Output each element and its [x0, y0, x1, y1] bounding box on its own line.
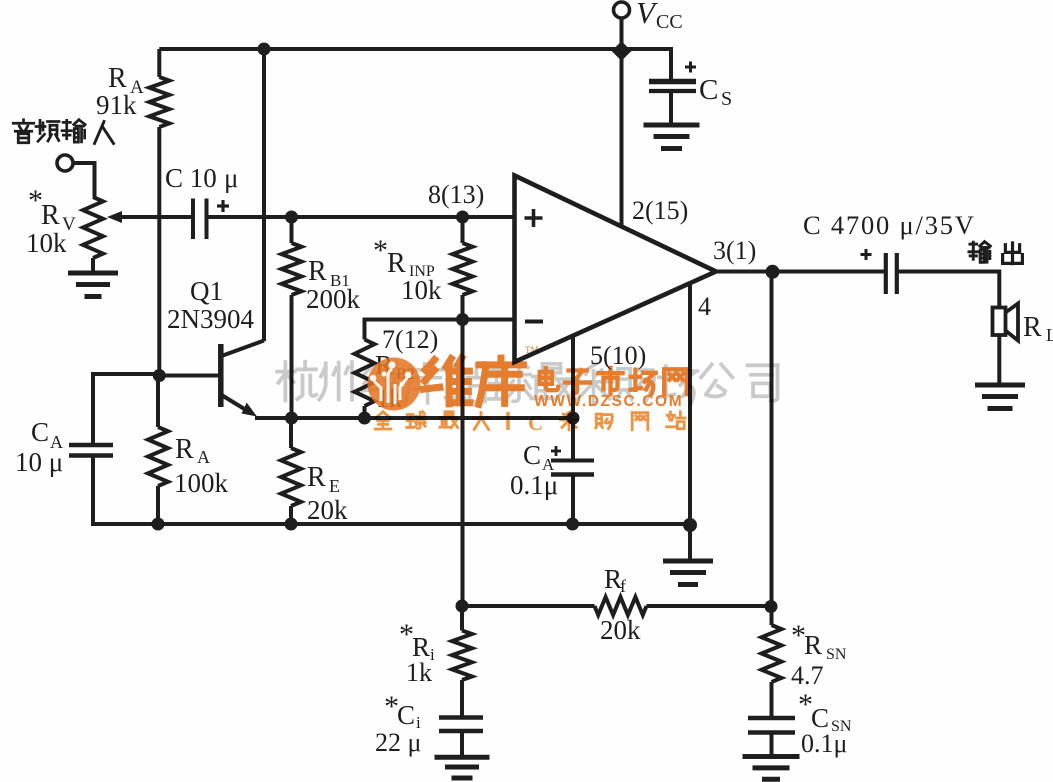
op-amp U1 triangle — [515, 176, 717, 363]
Q1 emitter lead — [222, 395, 249, 412]
capacitor CSN 0.1u — [748, 716, 795, 721]
wire feedback left — [462, 604, 595, 608]
wire emitter bus — [255, 416, 573, 420]
wire cap to speaker — [897, 270, 1000, 274]
svg-text:91k: 91k — [96, 90, 137, 120]
ground below RL — [975, 383, 1025, 388]
ground below RV — [68, 271, 118, 276]
svg-text:WWW.DZSC.COM: WWW.DZSC.COM — [534, 393, 683, 410]
svg-text:R: R — [175, 434, 194, 465]
svg-text:4.7: 4.7 — [791, 661, 824, 690]
wire minus node to feedback — [461, 320, 465, 607]
svg-text:5(10): 5(10) — [590, 341, 646, 370]
wire signal to + input — [117, 215, 192, 219]
svg-text:C: C — [528, 411, 543, 435]
svg-text:A: A — [197, 447, 210, 467]
capacitor CS — [649, 79, 696, 85]
wire to CS — [669, 49, 673, 80]
svg-text:R: R — [41, 200, 60, 231]
svg-text:*: * — [373, 234, 388, 267]
junction emitter RB2 — [358, 412, 371, 425]
junction Rf right — [765, 600, 778, 613]
svg-text:C: C — [699, 74, 718, 106]
Q1 emitter arrow — [242, 403, 258, 417]
wiper arrow RV — [107, 211, 122, 223]
resistor Ri 1k — [460, 606, 464, 631]
resistor RB1 200k — [290, 217, 294, 243]
wire base — [159, 374, 219, 378]
svg-text:μ: μ — [224, 163, 238, 193]
wire base to CA10u — [93, 372, 159, 376]
junction Rf left — [456, 600, 469, 613]
svg-text:100k: 100k — [174, 468, 229, 498]
svg-text:C: C — [397, 700, 415, 730]
wire input to RV — [73, 161, 95, 165]
svg-text:R: R — [804, 630, 822, 660]
svg-text:3(1): 3(1) — [713, 236, 756, 265]
svg-text:20k: 20k — [307, 495, 348, 525]
svg-text:V: V — [636, 0, 658, 30]
svg-text:f: f — [620, 576, 626, 596]
junction base node — [153, 369, 166, 382]
label audio input (音频输入) — [13, 120, 34, 143]
resistor RE 20k — [289, 418, 293, 448]
ground below Ci — [435, 755, 490, 760]
svg-text:10k: 10k — [26, 228, 67, 258]
svg-text:SN: SN — [826, 646, 847, 663]
junction minus node — [456, 313, 469, 326]
svg-text:200k: 200k — [306, 284, 361, 314]
resistor RB2 — [355, 340, 375, 407]
junction Vcc node — [612, 41, 632, 61]
resistor Rf 20k — [595, 597, 647, 615]
ground below CSN — [743, 754, 800, 759]
svg-text:10 μ: 10 μ — [15, 447, 63, 477]
wire pin 4 down — [688, 283, 692, 526]
capacitor Ci 22u — [439, 715, 483, 720]
svg-text:Q1: Q1 — [190, 276, 223, 306]
wire top supply rail — [159, 47, 673, 51]
svg-text:R: R — [1023, 312, 1042, 343]
junction signal RINP — [456, 211, 469, 224]
wire pin2 to rail — [620, 49, 624, 226]
svg-text:2N3904: 2N3904 — [167, 304, 254, 334]
svg-text:2(15): 2(15) — [632, 196, 688, 225]
junction output node — [766, 265, 780, 279]
plus sign noninverting input — [525, 216, 543, 220]
svg-text:4: 4 — [698, 292, 711, 321]
svg-text:R: R — [307, 462, 326, 493]
resistor RINP 10k — [461, 217, 465, 243]
plus sign CS — [685, 66, 696, 69]
watermark logo circle — [368, 358, 421, 411]
wire 7(12) loop top — [365, 318, 463, 322]
svg-text:TM: TM — [525, 345, 539, 355]
junction signal RB1 — [285, 211, 298, 224]
plus sign CA01 — [551, 450, 561, 453]
Q1 collector lead — [222, 341, 265, 357]
wire pin 5(10) — [571, 337, 575, 418]
resistor RSN 4.7 — [770, 606, 774, 625]
junction emitter CA01 — [567, 412, 580, 425]
speaker RL — [993, 308, 1006, 336]
plus sign C10u — [217, 204, 229, 207]
resistor RA 100k — [148, 427, 168, 486]
capacitor C 10u — [191, 199, 195, 240]
svg-text:10k: 10k — [401, 275, 442, 305]
svg-text:8(13): 8(13) — [428, 180, 484, 209]
junction top rail — [258, 43, 271, 56]
transistor Q1 base bar — [218, 344, 224, 407]
ground below CS — [644, 123, 700, 128]
svg-text:C: C — [523, 440, 541, 470]
svg-text:L: L — [1046, 325, 1053, 345]
wire output — [716, 270, 884, 274]
junction bottom RE — [285, 518, 298, 531]
plus sign C4700 — [861, 253, 872, 256]
svg-text:C: C — [31, 417, 49, 447]
svg-text:S: S — [721, 88, 732, 110]
svg-text:E: E — [329, 476, 340, 496]
svg-text:1k: 1k — [406, 658, 432, 687]
svg-text:R: R — [308, 256, 327, 287]
svg-text:C 10: C 10 — [165, 163, 217, 193]
label output (输出) — [969, 242, 990, 263]
capacitor C 4700u — [884, 253, 888, 294]
input terminal — [57, 155, 73, 171]
minus sign inverting input — [525, 320, 543, 324]
wire bottom bus — [91, 522, 690, 526]
svg-text:0.1μ: 0.1μ — [801, 729, 847, 758]
capacitor CA 10u — [69, 443, 113, 448]
watermark dzsc.com overlay — [277, 345, 777, 435]
wire output to snubber — [770, 272, 774, 607]
junction bottom CA01 — [566, 518, 579, 531]
resistor RA 91k — [157, 49, 161, 77]
junction bottom RA100k — [152, 518, 165, 531]
svg-text:22 μ: 22 μ — [375, 728, 421, 757]
potentiometer RV 10k — [83, 197, 103, 258]
wire pin4 to ground — [688, 524, 692, 560]
capacitor CA 0.1u — [571, 418, 575, 461]
Vcc terminal — [614, 2, 630, 18]
svg-text:0.1μ: 0.1μ — [510, 470, 558, 500]
ground below pin 4 — [663, 559, 713, 564]
junction emitter RB1 — [285, 412, 298, 425]
wire minus input — [463, 318, 515, 322]
svg-text:CC: CC — [656, 11, 683, 33]
junction pin4 bottom — [683, 518, 697, 532]
svg-text:20k: 20k — [600, 615, 641, 645]
svg-text:C 4700 μ/35V: C 4700 μ/35V — [803, 210, 976, 240]
wire collector to rail — [262, 49, 266, 341]
